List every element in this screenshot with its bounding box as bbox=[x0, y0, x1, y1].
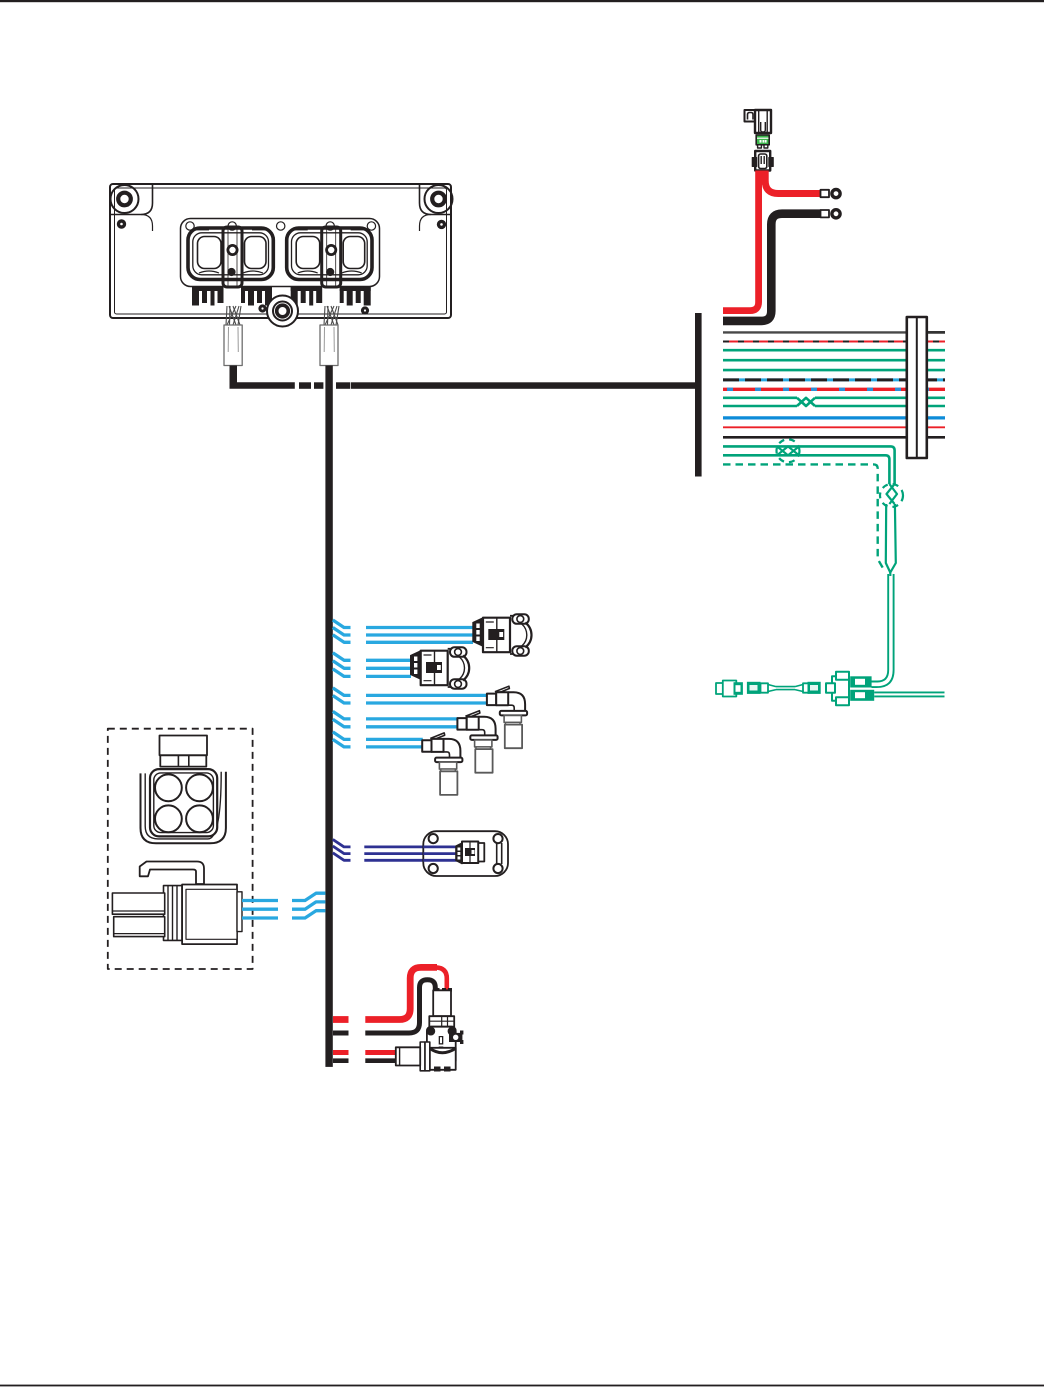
ECM connector B wire cover strip bbox=[322, 227, 341, 287]
inline connector pair right plug bbox=[795, 682, 821, 694]
4-pin connector pin 2 bbox=[186, 774, 213, 801]
4-pin connector face view: top latch tab bbox=[160, 736, 208, 767]
sensor wires group 5 bbox=[333, 732, 423, 747]
pump body bolts bbox=[426, 1027, 435, 1036]
shielded cable taper bbox=[886, 504, 896, 576]
pump top cap marks bbox=[435, 988, 440, 992]
ECM screw top-left bbox=[111, 185, 139, 213]
pump collar bbox=[429, 1016, 454, 1026]
green twisted pair upper wire bbox=[723, 446, 895, 484]
ECM connector B shell bbox=[287, 228, 372, 280]
inline connector pair left plug bbox=[747, 682, 795, 694]
ECM bottom screw right bbox=[361, 307, 368, 314]
bus drop from sleeve A bbox=[229, 366, 294, 389]
fuel pump assembly bbox=[396, 988, 464, 1072]
wire fan bundle B bbox=[324, 306, 339, 325]
wire red/lightblue stripe bbox=[723, 388, 945, 391]
ECM connector plate bbox=[181, 219, 380, 287]
small green stub connector bbox=[716, 681, 743, 697]
bus horizontal solid run to right bar bbox=[351, 382, 695, 389]
red battery wire from fuse (vertical + corner to harness) bbox=[723, 171, 759, 311]
red branch wire to ring terminal bbox=[765, 171, 821, 194]
plate hole 5 bbox=[367, 222, 375, 230]
wire black/lightblue stripe bbox=[723, 378, 945, 381]
wire black bbox=[723, 436, 945, 439]
connector side view: wire stub upper bbox=[112, 893, 164, 914]
MAP sensor connector bbox=[456, 842, 502, 865]
wire green 3 bbox=[723, 369, 945, 372]
fuel pump power black wire bbox=[333, 980, 435, 1033]
vertical bus from sleeve B down to pump bbox=[325, 366, 332, 1067]
connector side view: wire stub lower bbox=[114, 917, 165, 937]
sensor wires group 4 bbox=[333, 711, 458, 726]
ring terminal (black wire) bbox=[821, 210, 841, 218]
twist symbol on horizontal green pair bbox=[777, 439, 800, 462]
fuse holder F1 lower body bbox=[752, 151, 773, 171]
ECM small screw left bbox=[117, 220, 125, 228]
bus horizontal dash 1 bbox=[299, 382, 311, 389]
tee sensor housing bbox=[826, 672, 849, 706]
wire red thin bbox=[723, 426, 945, 428]
pump connector barrel bbox=[396, 1047, 420, 1065]
plate hole 1 bbox=[186, 222, 194, 230]
ECM screw top-right bbox=[425, 185, 453, 213]
page bottom border line bbox=[0, 1385, 1044, 1387]
ECM bottom screw left bbox=[259, 305, 266, 312]
bus horizontal dash 2 bbox=[314, 382, 323, 389]
wire green 2 bbox=[723, 359, 945, 362]
green connector plug lower bbox=[850, 690, 874, 701]
4-pin connector pin 3 bbox=[155, 805, 182, 832]
connector side view: main body bbox=[182, 885, 242, 945]
main harness bus (thick black) bbox=[229, 313, 701, 1067]
sensor wires group 3 bbox=[333, 688, 488, 703]
pump right bracket bbox=[449, 1031, 463, 1045]
connector side view: rib section bbox=[164, 886, 183, 941]
wire gray signal bbox=[723, 331, 945, 333]
ECM connector B pin field left bbox=[291, 286, 323, 306]
ECM body outline bbox=[110, 184, 451, 318]
crank sensor 3 (right angle) bbox=[422, 733, 462, 795]
ECM mounting tab top-right bbox=[420, 185, 451, 215]
detail callout dashed box bbox=[108, 729, 253, 969]
connector B latch marks bbox=[295, 227, 364, 230]
crank sensor 1 (right angle) bbox=[487, 686, 527, 748]
green shield drain wire (dashed) bbox=[723, 464, 884, 569]
wire green 1 bbox=[723, 349, 945, 352]
injector wires group 2 bbox=[333, 653, 411, 677]
connector side view: latch lever bbox=[140, 862, 204, 885]
TPS wires (light blue) from side connector to bus bbox=[242, 893, 325, 918]
green twisted pair lower wire bbox=[723, 455, 889, 484]
connector A latch marks bbox=[196, 227, 265, 230]
fuel pump sender red wire bbox=[333, 1050, 397, 1055]
twisted pair wire green 5 bbox=[723, 405, 945, 408]
fuse holder F1 upper body bbox=[745, 110, 772, 133]
fuse (green mini blade) bbox=[756, 135, 769, 148]
plate hole 4 bbox=[326, 222, 334, 230]
MAP sensor wires over plate bbox=[423, 847, 458, 860]
wire fan bundle A bbox=[226, 306, 241, 325]
right distribution bar bbox=[695, 313, 702, 477]
green wire to right from lower plug bbox=[874, 692, 944, 696]
4-pin connector face view: outer shell bbox=[141, 772, 226, 844]
pump top cylinder bbox=[433, 990, 451, 1016]
ECM connector B pin field right bbox=[340, 286, 371, 306]
MAP sensor mounting plate bbox=[423, 831, 508, 876]
pump connector holder bbox=[420, 1042, 425, 1071]
plate hole 2 bbox=[228, 222, 236, 230]
wire red/black stripe bbox=[723, 341, 945, 343]
4-pin connector face view: body bbox=[150, 769, 217, 836]
ring terminal (red wire) bbox=[821, 190, 841, 198]
crank sensor 2 (right angle) bbox=[457, 711, 497, 773]
wire blue bbox=[723, 416, 945, 419]
bulkhead connector (vertical) bbox=[907, 317, 927, 458]
ECM module U1 bbox=[110, 184, 453, 366]
injector wires group 1 bbox=[333, 620, 473, 642]
MAP sensor wires (navy) bbox=[333, 839, 456, 860]
pump body bbox=[427, 1027, 456, 1065]
harness sleeve B bbox=[320, 325, 338, 366]
ECM connector A pin field right bbox=[241, 286, 272, 306]
page top border bar bbox=[0, 0, 1044, 2]
injector connector 1 bbox=[473, 614, 532, 655]
ECM connector A wire cover strip bbox=[223, 227, 242, 287]
fuel pump sender black wire bbox=[333, 1058, 397, 1063]
twist symbol on vertical green pair bbox=[880, 484, 903, 507]
ECM small screw right bbox=[437, 220, 445, 228]
injector connector 2 bbox=[411, 647, 470, 688]
twisted pair wire green 4 bbox=[723, 398, 945, 406]
black battery wire (corner + vertical + corner to harness) bbox=[723, 214, 821, 321]
plate hole 3 bbox=[277, 222, 285, 230]
pump lower housing bbox=[430, 1048, 456, 1070]
pump label bbox=[439, 1036, 444, 1056]
green connector plug upper bbox=[850, 676, 871, 687]
ECM mounting tab top-left bbox=[111, 185, 153, 215]
ECM connector A pin field left bbox=[192, 286, 224, 306]
4-pin connector pin 1 bbox=[155, 774, 182, 801]
fuel pump power red wire bbox=[333, 967, 447, 1019]
harness sleeve A bbox=[224, 325, 242, 366]
4-pin connector pin 4 bbox=[186, 805, 213, 832]
ECM connector A shell bbox=[188, 228, 273, 280]
shielded cable run down bbox=[872, 574, 894, 687]
ECM bottom boss circle bbox=[267, 296, 298, 327]
bus horizontal dash 3 bbox=[336, 382, 350, 389]
